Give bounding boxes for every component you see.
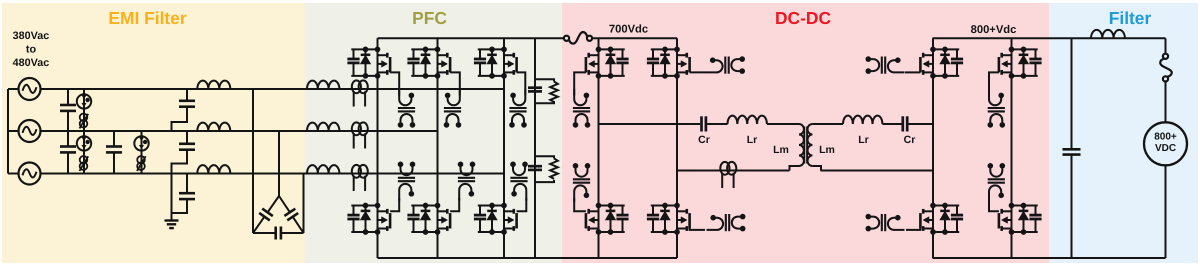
- DC source 800+ VDC: [1144, 122, 1187, 165]
- delta capacitor bank (3 X-caps): [253, 196, 304, 240]
- wire Q13 gate lead: [906, 227, 920, 230]
- filter capacitor Co lead: [1071, 38, 1073, 148]
- gate transformer T6 (Q6): [510, 162, 528, 201]
- wire negative rail (secondary bridge / Filter): [933, 257, 1166, 259]
- wire phase A to delta: [252, 89, 254, 233]
- wire PFC leg 2: [437, 38, 439, 258]
- capacitor Cr (secondary): [903, 116, 907, 131]
- wire source bus to V1: [8, 88, 19, 90]
- wire to output connector: [1165, 38, 1167, 54]
- capacitor Cr (primary): [702, 116, 706, 131]
- common-mode choke L1 (phase A-B): [77, 89, 91, 131]
- transformer TX1 (Lm secondary winding): [808, 124, 813, 166]
- wire Q10 gate lead: [690, 227, 705, 230]
- AC source V3 (phase C): [19, 163, 41, 185]
- wire PFC positive rail: [378, 37, 565, 39]
- svg-text:EMI Filter: EMI Filter: [108, 8, 186, 28]
- wire phase B line: [41, 130, 438, 132]
- wire Q3 gate lead: [517, 72, 526, 95]
- svg-text:DC-DC: DC-DC: [775, 8, 831, 28]
- inductor Lr (secondary): [843, 116, 882, 124]
- capacitor CX2 lead: [67, 131, 69, 146]
- wire primary tank return line: [677, 170, 790, 172]
- inductor Lf1 (phase A): [197, 81, 230, 89]
- boost inductor Lb1: [307, 81, 339, 89]
- wire Lr to transformer: [767, 123, 799, 125]
- wire Q7 gate lead: [574, 72, 586, 95]
- wire Q4 gate lead: [390, 198, 399, 211]
- inductor Lf2 (phase B): [197, 123, 230, 131]
- wire DC-DC leg C: [932, 38, 934, 258]
- boost inductor Lb2: [307, 123, 339, 131]
- wire source bus to V2: [8, 130, 19, 132]
- wire DC-DC leg A: [598, 38, 600, 258]
- wire primary tank line: [599, 123, 701, 125]
- wire to ground: [171, 174, 173, 221]
- svg-text:Filter: Filter: [1109, 8, 1152, 28]
- current sense CT4 (primary): [720, 162, 736, 188]
- switch cell Q8 (primary bridge top-right): [647, 47, 690, 79]
- DC-DC section background: [562, 3, 1049, 263]
- switch cell Q3 top (cap+diode+MOSFET): [474, 47, 517, 79]
- wire phase C line: [41, 173, 505, 175]
- capacitor CY2: [186, 131, 188, 143]
- svg-text:Lr: Lr: [747, 134, 758, 146]
- gate transformer T3 (Q3): [509, 89, 527, 128]
- gate transformer T14 (Q14): [988, 163, 1006, 202]
- current sense CT2 (phase B): [352, 122, 368, 148]
- gate transformer T11 (Q11): [866, 56, 905, 74]
- filter inductor Lo: [1091, 30, 1125, 38]
- wire DC-link branch: [534, 38, 536, 258]
- switch cell Q13 (secondary bridge bottom-left): [920, 203, 963, 235]
- connector break (PFC to DC-DC bus): [564, 32, 592, 44]
- switch cell Q9 (primary bridge bottom-left): [586, 203, 629, 235]
- wire transformer primary return: [790, 166, 800, 171]
- gate transformer T13 (Q13): [866, 214, 905, 232]
- wire Q6 gate lead: [517, 198, 527, 211]
- switch cell Q6 bottom (cap+diode+MOSFET): [474, 203, 517, 235]
- svg-text:Lm: Lm: [819, 144, 835, 156]
- svg-text:Cr: Cr: [698, 134, 710, 146]
- svg-text:Cr: Cr: [904, 134, 916, 146]
- wire phase A line / PFC midpoint bus: [41, 88, 505, 90]
- common-mode choke L2 (phase B-C): [77, 131, 91, 174]
- switch cell Q11 (secondary bridge top-left): [920, 47, 963, 79]
- wire secondary positive rail: [933, 37, 1166, 39]
- wire PFC leg 3: [503, 38, 505, 258]
- wire Q12 gate lead: [989, 72, 999, 95]
- gate transformer T4 (Q4): [398, 162, 416, 201]
- svg-text:Lr: Lr: [858, 134, 869, 146]
- inductor Lr (primary): [728, 116, 767, 124]
- svg-text:800+Vdc: 800+Vdc: [971, 24, 1017, 36]
- boost inductor Lb3: [307, 165, 339, 173]
- capacitor Cdc2 with resistor R2: [528, 156, 558, 182]
- capacitor CY3: [186, 174, 188, 193]
- ground: [165, 221, 179, 229]
- current sense CT1 (phase A): [352, 80, 368, 106]
- wire transformer secondary lead: [812, 166, 821, 171]
- switch cell Q7 (primary bridge top-left): [586, 47, 629, 79]
- wire phase B to delta apex: [278, 131, 280, 196]
- gate transformer T12 (Q12): [988, 89, 1006, 128]
- wire Q14 gate lead: [989, 198, 999, 211]
- wire connector to load: [1165, 82, 1167, 123]
- capacitor CY1: [186, 89, 188, 100]
- capacitor CX1 lead: [67, 89, 69, 104]
- wire negative rail (PFC / primary bridge): [378, 257, 678, 259]
- svg-text:PFC: PFC: [412, 8, 447, 28]
- switch cell Q5 bottom (cap+diode+MOSFET): [407, 203, 450, 235]
- gate transformer T5 (Q5): [458, 162, 476, 201]
- wire Q1 gate lead: [390, 72, 399, 95]
- switch cell Q1 top (cap+diode+MOSFET): [347, 47, 390, 79]
- connector break (output): [1160, 54, 1172, 82]
- svg-text:800+VDC: 800+VDC: [1154, 132, 1177, 155]
- gate transformer T7 (Q7): [573, 89, 591, 128]
- wire DC-DC primary positive rail: [592, 37, 677, 39]
- gate transformer T2 (Q2): [444, 89, 462, 128]
- wire Q11 gate lead: [905, 71, 920, 73]
- wire source bus to V3: [8, 173, 19, 175]
- wire Q5 gate lead: [450, 198, 459, 211]
- current sense CT3 (phase C): [352, 165, 368, 191]
- wire DC-DC leg D: [1011, 38, 1013, 258]
- inductor Lf3 (phase C): [197, 165, 230, 173]
- gate transformer T1 (Q1): [398, 89, 416, 128]
- wire secondary tank line: [909, 123, 934, 125]
- switch cell Q12 (secondary bridge top-right): [999, 47, 1042, 79]
- capacitor CX3 lead: [113, 131, 115, 146]
- gate transformer T8 (Q8): [706, 56, 745, 74]
- gate transformer T10 (Q10): [707, 214, 746, 232]
- PFC section background: [305, 3, 563, 263]
- EMI Filter section background: [2, 3, 305, 263]
- wire Q2 gate lead: [450, 72, 460, 95]
- svg-text:700Vdc: 700Vdc: [609, 24, 648, 36]
- wire source bus: [7, 89, 9, 174]
- wire Q8 gate lead: [690, 71, 706, 73]
- wire DC-DC leg B: [676, 38, 678, 258]
- svg-text:Lm: Lm: [773, 144, 789, 156]
- capacitor Cdc1 with resistor R1: [528, 79, 558, 103]
- switch cell Q14 (secondary bridge bottom-right): [999, 203, 1042, 235]
- gate transformer T9 (Q9): [573, 163, 591, 202]
- AC source V1 (phase A): [19, 78, 41, 100]
- wire Q9 gate lead: [574, 198, 586, 211]
- wire phase C to delta: [303, 174, 305, 234]
- transformer TX1 (Lm primary winding): [799, 124, 804, 166]
- AC source V2 (phase B): [19, 120, 41, 142]
- wire secondary tank return line: [821, 170, 934, 172]
- switch cell Q10 (primary bridge bottom-right): [647, 203, 690, 235]
- common-mode choke L3 (phase B-C): [134, 131, 148, 174]
- Filter section background: [1049, 3, 1198, 263]
- wire PFC leg 1: [377, 38, 379, 258]
- transformer TX1 core: [804, 127, 807, 164]
- switch cell Q4 bottom (cap+diode+MOSFET): [347, 203, 390, 235]
- switch cell Q2 top (cap+diode+MOSFET): [407, 47, 450, 79]
- wire transformer to Lr secondary: [812, 123, 843, 125]
- wire load to negative rail: [1165, 165, 1167, 258]
